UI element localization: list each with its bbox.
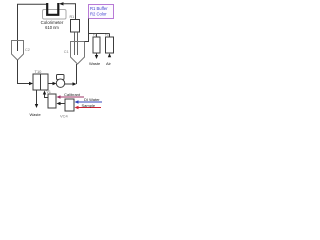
svg-text:Air: Air: [106, 61, 112, 66]
wire T10 to pump: [48, 83, 53, 85]
svg-text:V2: V2: [105, 33, 109, 37]
debubbler R1: [71, 20, 80, 33]
arrow V2 air up: [108, 53, 111, 57]
svg-text:T10: T10: [35, 69, 43, 74]
sample line red: [78, 107, 101, 109]
svg-text:V3: V3: [93, 33, 97, 37]
tube R1 to C1: [75, 32, 78, 55]
wire inlet from R1: [63, 4, 76, 19]
svg-text:V1: V1: [47, 90, 51, 94]
wire stub V3: [96, 34, 98, 38]
wire V1 to T10: [45, 94, 49, 98]
wire riser: [76, 64, 78, 84]
vessel C1: [71, 42, 85, 65]
pump P1 cap: [57, 75, 65, 80]
colorimeter body: [43, 10, 67, 20]
calibrant line magenta: [60, 96, 84, 98]
arrow into pump: [53, 82, 57, 85]
svg-text:R2 Color: R2 Color: [90, 12, 107, 17]
arrow V3 waste down: [95, 55, 98, 59]
manifold wire to valves: [89, 33, 110, 35]
arrow at C1 riser: [73, 82, 77, 85]
svg-text:610 nm: 610 nm: [45, 25, 59, 30]
V3 waste line: [96, 53, 98, 56]
DI water line blue: [78, 101, 102, 103]
svg-text:DI Water: DI Water: [84, 97, 100, 102]
svg-text:C1: C1: [64, 50, 69, 54]
wire T10 waste down: [36, 90, 38, 105]
valve V2: [106, 37, 114, 53]
arrow T10 waste: [35, 104, 38, 108]
arrow into V1 from VC4: [57, 102, 61, 105]
svg-text:R1 Buffer: R1 Buffer: [90, 6, 108, 11]
svg-text:VC4: VC4: [60, 114, 69, 119]
wire cell inlet arrow: [59, 2, 64, 5]
wire pump to C1 riser: [65, 83, 74, 85]
arrow up into T10: [43, 91, 46, 95]
wire C2 drain: [18, 60, 30, 84]
arrow into T10: [29, 82, 33, 85]
vessel C2: [12, 41, 24, 61]
svg-text:Waste: Waste: [89, 61, 101, 66]
svg-text:Calibrant: Calibrant: [64, 92, 81, 97]
svg-text:Waste: Waste: [30, 112, 42, 117]
svg-text:R1: R1: [70, 15, 75, 19]
pump P1 body: [56, 79, 64, 87]
svg-text:C2: C2: [25, 48, 30, 52]
valve T10 right: [41, 74, 49, 90]
wire stub V2: [109, 34, 111, 38]
valve V1: [48, 94, 56, 108]
arrow sample into VC4: [75, 106, 79, 109]
valve V3: [93, 37, 100, 53]
flow cell U tube: [47, 3, 58, 15]
manifold wire from reagent box: [85, 19, 89, 42]
arrow DI water into VC4: [75, 100, 79, 103]
arrow calibrant into V1: [57, 95, 61, 98]
valve T10 left: [33, 74, 41, 90]
reagent box R1/R2: [89, 5, 114, 19]
wire C2 dip tube from colorimeter: [18, 4, 47, 51]
valve VC4: [65, 99, 74, 111]
wire VC4 to V1: [60, 103, 65, 105]
svg-text:Sample: Sample: [82, 103, 96, 108]
